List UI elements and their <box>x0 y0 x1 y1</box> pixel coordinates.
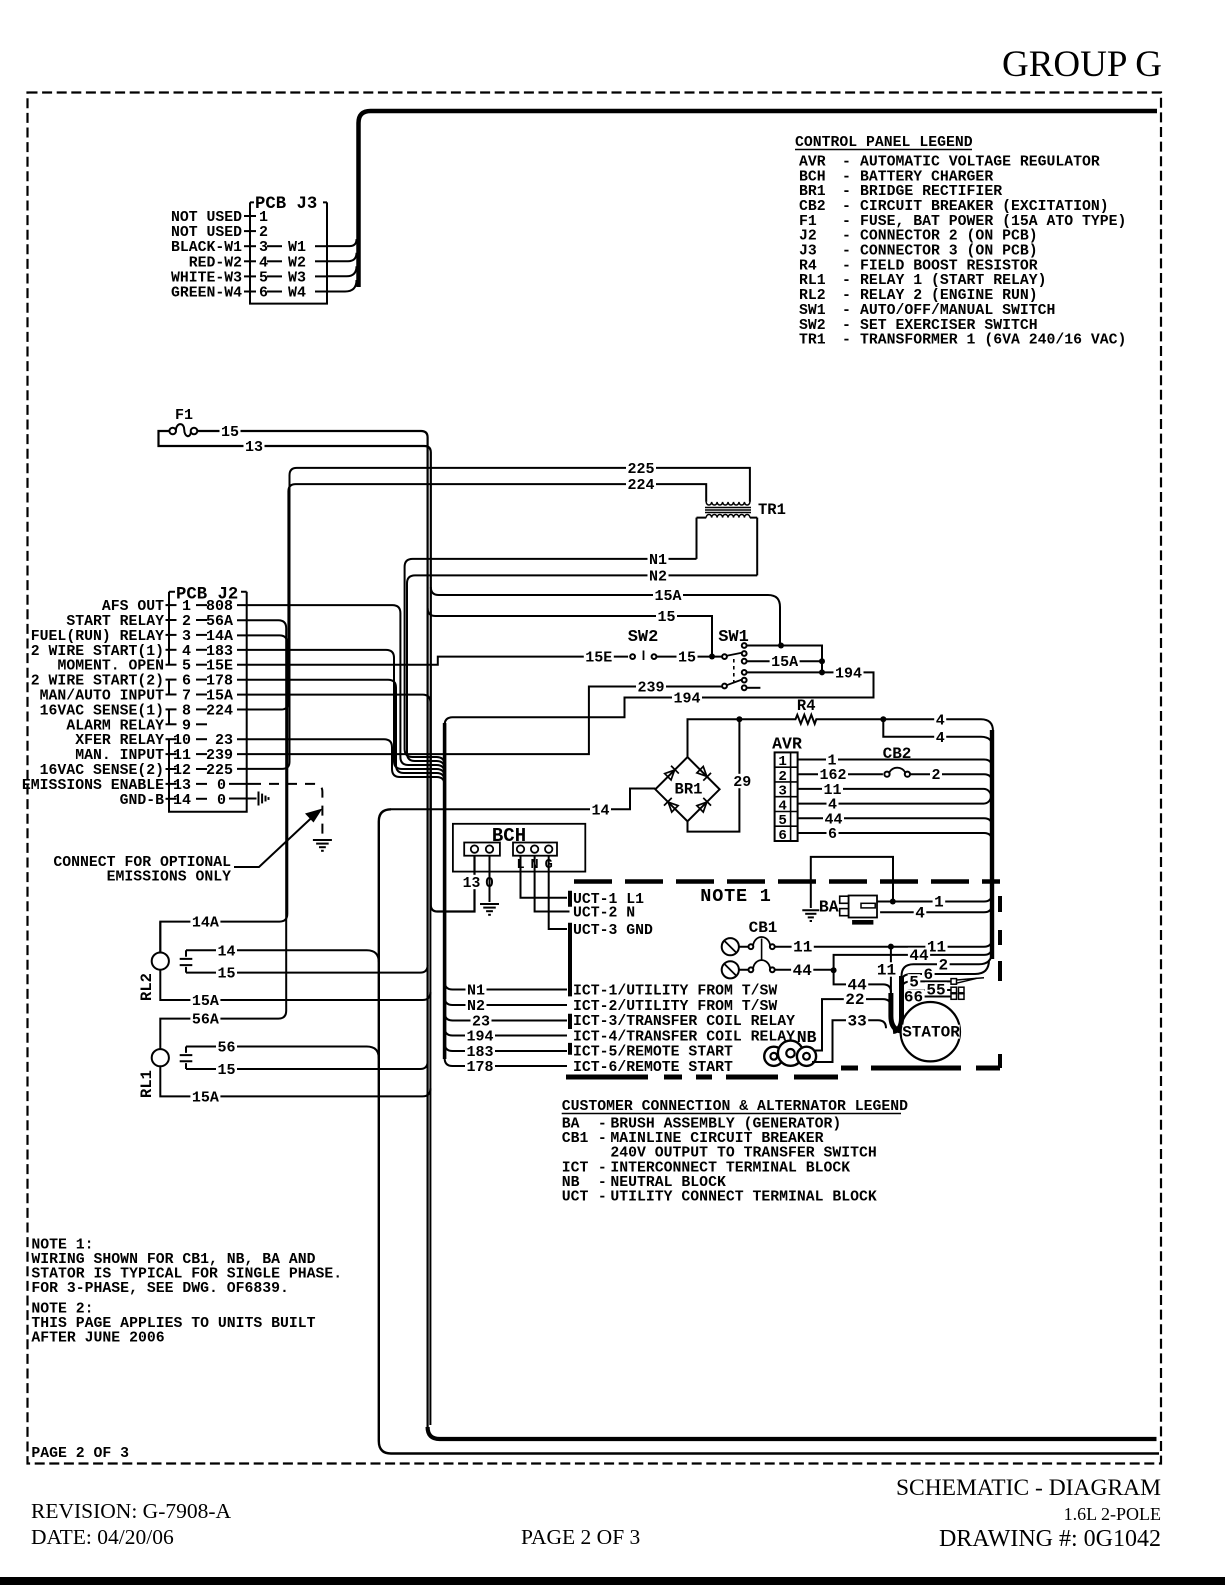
wire N1 net (TR1 secondary to ICT-1) <box>405 559 697 765</box>
junction dot riser b <box>819 669 825 675</box>
wire 44 upper (harness to CB1 node) <box>834 947 992 970</box>
junction dot 44 <box>831 967 837 973</box>
wire N1 to ICT terminal <box>445 982 567 990</box>
svg-text:ICT: ICT <box>562 1160 589 1176</box>
J2 pin 5 (MOMENT. OPEN) <box>57 658 233 675</box>
wire SW1 throw1 to 194 riser <box>747 646 822 673</box>
svg-text:CONNECTOR 2 (ON PCB): CONNECTOR 2 (ON PCB) <box>860 229 1038 245</box>
wire 23 to ICT terminal <box>445 1013 567 1021</box>
label 29 <box>732 774 753 788</box>
label 11 on drop <box>875 962 897 976</box>
svg-text:SW1: SW1 <box>799 303 826 319</box>
label 11 right <box>925 940 947 954</box>
svg-text:-: - <box>842 199 851 215</box>
label 0 at BCH <box>484 875 496 889</box>
svg-text:BRUSH ASSEMBLY (GENERATOR): BRUSH ASSEMBLY (GENERATOR) <box>610 1117 841 1133</box>
svg-text:EMISSIONS ENABLE: EMISSIONS ENABLE <box>22 778 164 794</box>
svg-text:14A: 14A <box>192 915 219 932</box>
wire 15A net RL1 coil bottom <box>160 1066 430 1096</box>
svg-text:PAGE 2 OF 3: PAGE 2 OF 3 <box>521 1525 640 1549</box>
label 55 <box>925 982 947 996</box>
neutral block NB <box>764 1028 816 1066</box>
svg-text:BCH: BCH <box>492 825 526 847</box>
svg-text:F1: F1 <box>799 214 817 230</box>
wire SW1 lower stub <box>747 687 761 689</box>
svg-text:-: - <box>842 288 851 304</box>
label 224 <box>626 477 656 491</box>
svg-text:-: - <box>842 258 851 274</box>
svg-text:GREEN-W4: GREEN-W4 <box>171 286 242 302</box>
svg-text:15A: 15A <box>192 993 219 1010</box>
svg-text:14: 14 <box>173 792 191 809</box>
J3 pin 1 (NOT USED) <box>171 209 268 226</box>
connector on wire 55 <box>951 987 957 993</box>
svg-text:-: - <box>842 154 851 170</box>
wire N to UCT-2 <box>535 856 570 912</box>
svg-text:1: 1 <box>778 754 787 770</box>
wire 14A RL2 coil top <box>159 922 161 953</box>
svg-text:RELAY 1 (START RELAY): RELAY 1 (START RELAY) <box>860 273 1046 289</box>
svg-text:-: - <box>598 1160 607 1176</box>
svg-text:BLACK-W1: BLACK-W1 <box>171 240 242 256</box>
wire 178 to ICT terminal <box>445 1058 567 1066</box>
svg-text:AUTO/OFF/MANUAL SWITCH: AUTO/OFF/MANUAL SWITCH <box>860 303 1055 319</box>
svg-text:WHITE-W3: WHITE-W3 <box>171 270 242 286</box>
junction dot 11 <box>888 944 894 950</box>
svg-text:194: 194 <box>673 691 700 708</box>
leader arrow to emissions ground <box>234 816 314 868</box>
J3 pin 4 (RED-W2) <box>189 254 327 271</box>
stator harness bundle left (11/44/22/33) <box>891 993 901 1031</box>
stator harness bundle right (2/6/5/55/66) <box>893 976 902 1032</box>
svg-text:4: 4 <box>778 798 787 814</box>
wire 239 net (J2-11 to SW1) <box>237 687 722 755</box>
label 15A to SW1 <box>653 588 683 602</box>
svg-text:R4: R4 <box>799 258 817 274</box>
wire G to UCT-3 <box>549 856 567 929</box>
label 2 at CB2 <box>930 767 942 781</box>
label 56A at RL1 <box>190 1011 220 1025</box>
svg-text:EMISSIONS ONLY: EMISSIONS ONLY <box>107 870 231 886</box>
NOTE 1 dashed box bottom edge right <box>841 1066 1000 1071</box>
svg-text:15: 15 <box>217 1062 235 1079</box>
bridge rectifier BR1 <box>655 757 719 821</box>
label 13 on F1 wire <box>244 439 265 453</box>
NOTE 1 dashed box left edge <box>568 891 572 1055</box>
svg-text:16VAC SENSE(1): 16VAC SENSE(1) <box>40 703 164 719</box>
svg-text:N2: N2 <box>649 568 667 585</box>
J2 pin 3 (FUEL(RUN) RELAY) <box>31 628 233 645</box>
svg-text:CB2: CB2 <box>883 745 912 763</box>
svg-text:-: - <box>842 214 851 230</box>
NOTE 1 dashed box top edge <box>574 879 1000 884</box>
svg-text:14: 14 <box>217 943 235 960</box>
svg-text:RED-W2: RED-W2 <box>189 255 242 271</box>
label 44 upper right <box>908 948 930 962</box>
svg-text:224: 224 <box>627 477 654 494</box>
svg-text:R4: R4 <box>797 697 816 715</box>
transformer TR1 <box>697 501 786 519</box>
wire 56A net (J2-2 to RL1 coil) <box>160 620 286 1049</box>
label 15 at RL1 <box>216 1062 237 1076</box>
wire 33 net (NB to stator bundle) <box>812 1020 886 1062</box>
relay RL1 coil <box>152 1049 169 1066</box>
svg-text:178: 178 <box>466 1059 493 1076</box>
svg-text:TRANSFORMER 1 (6VA 240/16 VAC): TRANSFORMER 1 (6VA 240/16 VAC) <box>860 333 1126 349</box>
J2-14 GND-B wire <box>229 798 257 800</box>
svg-text:15: 15 <box>217 966 235 983</box>
wire 224 net (J2-8 to TR1 primary left) <box>237 484 706 709</box>
svg-text:F1: F1 <box>175 407 193 424</box>
J3 pin 6 (GREEN-W4) <box>171 285 327 302</box>
wire 183 net (J2-4 to ICT-5) <box>237 650 445 777</box>
J2 pin 1 (AFS OUT) <box>102 598 233 615</box>
svg-text:ICT-3/TRANSFER COIL RELAY: ICT-3/TRANSFER COIL RELAY <box>573 1014 795 1030</box>
NOTE 1 dashed box right edge <box>998 896 1002 1068</box>
wire 4 from harness to BA <box>880 904 992 912</box>
svg-text:NEUTRAL BLOCK: NEUTRAL BLOCK <box>610 1175 726 1191</box>
svg-text:56: 56 <box>217 1040 235 1057</box>
wire 15 from RL1 contact into bus <box>186 1062 428 1070</box>
BCH 0 terminal ground wire <box>489 856 491 902</box>
circuit breaker CB2 <box>883 745 912 777</box>
J2 pin 10 (XFER RELAY) <box>75 732 233 749</box>
label 6 at stator <box>922 967 935 981</box>
svg-text:GND-B: GND-B <box>120 793 165 809</box>
wire 23 net (J2-10 to ICT-3) <box>237 739 445 785</box>
svg-text:BCH: BCH <box>799 169 826 185</box>
wire 15 net vertical (F1 down left bus) <box>197 431 427 1427</box>
J2 pin 13 (EMISSIONS ENABLE) <box>22 777 226 794</box>
relay RL2 coil <box>152 953 169 970</box>
wire 44 from CB1 <box>775 969 834 971</box>
label 44 lower <box>846 977 868 991</box>
wire SW2 to SW1 common <box>656 656 722 658</box>
svg-text:NB: NB <box>562 1175 580 1191</box>
svg-text:SCHEMATIC - DIAGRAM: SCHEMATIC - DIAGRAM <box>896 1475 1161 1501</box>
label 14 at RL2 <box>216 943 237 957</box>
svg-text:FOR 3-PHASE, SEE DWG. OF6839.: FOR 3-PHASE, SEE DWG. OF6839. <box>31 1281 289 1297</box>
svg-text:14: 14 <box>591 802 609 819</box>
bottom page bar <box>0 1577 1225 1585</box>
svg-text:RL2: RL2 <box>138 973 156 1001</box>
junction dot BA <box>890 899 896 905</box>
wire 6 net (stator to AVR-6) <box>902 960 990 982</box>
svg-text:RELAY 2 (ENGINE RUN): RELAY 2 (ENGINE RUN) <box>860 288 1038 304</box>
wire 15A from bus to SW1 <box>431 587 780 646</box>
svg-text:5: 5 <box>778 813 787 829</box>
label 1 at BA <box>933 894 946 908</box>
wire 29 (BR1 bottom to R4 node) <box>688 719 740 831</box>
label 15 at RL2 <box>216 965 237 979</box>
wire SW1 lower throw to riser <box>747 671 822 673</box>
svg-text:AVR: AVR <box>799 154 826 170</box>
svg-text:2: 2 <box>938 956 948 974</box>
svg-text:XFER RELAY: XFER RELAY <box>75 733 164 749</box>
svg-text:BR1: BR1 <box>675 781 703 799</box>
J2 pin 6 (2 WIRE START(2)) <box>31 673 233 690</box>
junction dot R4 right <box>880 716 886 722</box>
svg-text:TR1: TR1 <box>799 333 826 349</box>
label 11 at CB1 <box>792 940 814 954</box>
J3 pin 5 (WHITE-W3) <box>171 269 327 286</box>
svg-text:15E: 15E <box>585 650 612 667</box>
stator <box>901 1002 960 1061</box>
svg-text:1.6L 2-POLE: 1.6L 2-POLE <box>1064 1504 1161 1524</box>
svg-text:MOMENT. OPEN: MOMENT. OPEN <box>57 659 164 675</box>
ground at emissions wire <box>313 839 332 841</box>
svg-text:-: - <box>598 1190 607 1206</box>
svg-text:33: 33 <box>847 1012 866 1030</box>
ground at J2-14 (GND-B) <box>258 792 260 806</box>
svg-text:W4: W4 <box>288 285 306 302</box>
svg-text:44: 44 <box>909 947 929 965</box>
wire 5 net with connector <box>902 981 952 989</box>
svg-text:6: 6 <box>778 828 787 844</box>
J2 pin 12 (16VAC SENSE(2)) <box>40 762 233 779</box>
svg-text:NOTE 1: NOTE 1 <box>700 886 771 907</box>
wire 56 from RL1 contact to vertical <box>186 1047 379 1059</box>
label N2 <box>648 568 669 582</box>
fuse F1 <box>169 407 197 436</box>
switch SW2 (set exerciser) <box>628 628 659 660</box>
svg-text:RL1: RL1 <box>138 1070 156 1098</box>
wire 15A net (J2-7 into bus) <box>237 695 430 1425</box>
svg-text:6: 6 <box>259 285 268 302</box>
label 4 upper <box>934 712 946 726</box>
wire W1 from J3-3 <box>327 239 357 246</box>
svg-text:4: 4 <box>915 904 925 922</box>
svg-text:224: 224 <box>206 702 233 719</box>
connector on wire 66 <box>951 994 957 1000</box>
label 239 <box>636 679 666 693</box>
wire 2 net (stator to CB2) <box>902 951 993 976</box>
wire 14 to BR1 <box>391 789 655 810</box>
wire 178 net (J2-6 to ICT-6) <box>237 680 445 781</box>
svg-text:2 WIRE START(1): 2 WIRE START(1) <box>31 644 164 660</box>
svg-text:-: - <box>842 184 851 200</box>
wire N2 to ICT terminal <box>445 997 567 1005</box>
svg-text:NOT USED: NOT USED <box>171 210 242 226</box>
svg-text:J2: J2 <box>799 229 817 245</box>
wire 14 from RL2 contact to vertical <box>186 950 379 962</box>
svg-text:DATE: 04/20/06: DATE: 04/20/06 <box>31 1525 174 1549</box>
J2 pin 11 (MAN. INPUT) <box>75 747 233 764</box>
wire 194 net (SW1 to ICT-4) <box>445 672 874 725</box>
wire W4 from J3-6 <box>327 280 357 292</box>
svg-text:CB2: CB2 <box>799 199 826 215</box>
wire 66 net with connector <box>902 997 952 1005</box>
svg-text:-: - <box>842 333 851 349</box>
label 225 <box>626 461 656 475</box>
svg-text:4: 4 <box>936 712 945 729</box>
label 194 upper <box>834 665 864 679</box>
J2 pin 8 (16VAC SENSE(1)) <box>40 702 233 719</box>
label 44 at CB1 <box>791 963 813 977</box>
wire 13 net (F1 to BCH-13) <box>159 431 475 912</box>
svg-text:TR1: TR1 <box>758 501 786 519</box>
label 15 top <box>656 609 677 623</box>
svg-text:6: 6 <box>828 826 837 843</box>
svg-text:3: 3 <box>778 784 787 800</box>
svg-text:-: - <box>598 1131 607 1147</box>
J3 pin 3 (BLACK-W1) <box>171 239 327 256</box>
svg-text:ICT-2/UTILITY FROM T/SW: ICT-2/UTILITY FROM T/SW <box>573 999 777 1015</box>
wire 11 drop to stator bundle <box>890 947 892 995</box>
svg-text:225: 225 <box>627 461 654 478</box>
wire 1 from harness to BA <box>877 894 992 902</box>
label 15A at RL2 <box>190 993 220 1007</box>
svg-text:FUEL(RUN) RELAY: FUEL(RUN) RELAY <box>31 629 164 645</box>
battery charger BCH <box>453 824 585 873</box>
svg-text:MAN/AUTO INPUT: MAN/AUTO INPUT <box>40 689 164 705</box>
AVR pin 3 and 4 wires (U-turn at harness) <box>798 789 991 804</box>
svg-text:-: - <box>842 229 851 245</box>
svg-text:11: 11 <box>877 962 896 980</box>
label 15A at SW1 <box>770 654 800 668</box>
wire L to UCT-1 <box>521 856 568 898</box>
J2 pin 7 (MAN/AUTO INPUT) <box>40 688 233 705</box>
svg-text:REVISION: G-7908-A: REVISION: G-7908-A <box>31 1499 232 1523</box>
wire 15E from J2-5 to SW2 <box>237 657 628 665</box>
label 5 <box>908 974 921 988</box>
svg-text:BRIDGE RECTIFIER: BRIDGE RECTIFIER <box>860 184 1002 200</box>
junction dot at SW junction <box>709 654 715 660</box>
svg-text:-: - <box>842 273 851 289</box>
label 13 at BCH <box>461 875 482 889</box>
AVR pin 1 wire <box>798 760 992 768</box>
svg-text:29: 29 <box>733 774 751 791</box>
NOTE 1 dashed box bottom edge left <box>566 1075 838 1080</box>
label 194 lower <box>672 690 702 704</box>
svg-text:194: 194 <box>835 665 862 682</box>
svg-text:16VAC SENSE(2): 16VAC SENSE(2) <box>40 763 164 779</box>
wire 15A net RL2 coil bottom <box>160 970 430 1000</box>
label 4 at BA <box>914 905 927 919</box>
svg-text:CIRCUIT BREAKER (EXCITATION): CIRCUIT BREAKER (EXCITATION) <box>860 199 1109 215</box>
harness bar right <box>990 730 994 959</box>
resistor R4 <box>739 697 993 731</box>
emissions enable dashed wire from J2-13 <box>229 783 251 785</box>
wire 194 to ICT terminal <box>445 1028 567 1036</box>
wire SW1 throw3 (15A) <box>747 660 822 662</box>
RL1 contact <box>180 1047 193 1070</box>
label 33 <box>846 1013 868 1027</box>
AVR pin 2 wire with breaker CB2 <box>798 773 883 775</box>
svg-text:56A: 56A <box>192 1012 219 1029</box>
svg-text:INTERCONNECT TERMINAL BLOCK: INTERCONNECT TERMINAL BLOCK <box>610 1160 850 1176</box>
J2 pin 4 (2 WIRE START(1)) <box>31 643 233 660</box>
connector J2 (PCB J2) <box>169 586 247 812</box>
wire bottom bus thick <box>428 1427 1157 1439</box>
label 4 lower <box>934 730 946 744</box>
svg-text:15: 15 <box>657 609 675 626</box>
circuit breaker CB1 <box>722 919 778 978</box>
svg-text:CONNECTOR 3 (ON PCB): CONNECTOR 3 (ON PCB) <box>860 244 1038 260</box>
svg-text:N2: N2 <box>467 998 485 1015</box>
svg-text:BA: BA <box>562 1117 580 1133</box>
svg-text:UCT-2 N: UCT-2 N <box>573 906 635 922</box>
wire 15 from bus to SW junction <box>428 608 712 657</box>
svg-text:-: - <box>598 1117 607 1133</box>
wire W2 from J3-4 <box>327 253 357 262</box>
svg-text:ICT-1/UTILITY FROM T/SW: ICT-1/UTILITY FROM T/SW <box>573 984 777 1000</box>
svg-text:-: - <box>598 1175 607 1191</box>
svg-text:SW2: SW2 <box>799 318 826 334</box>
svg-text:ICT-4/TRANSFER COIL RELAY: ICT-4/TRANSFER COIL RELAY <box>573 1029 795 1045</box>
svg-text:AVR: AVR <box>772 735 802 754</box>
junction dot riser a <box>819 658 825 664</box>
label N1 <box>648 552 669 566</box>
J2 pin 9 (ALARM RELAY) <box>66 717 207 734</box>
voltage regulator AVR <box>772 735 802 844</box>
svg-text:STATOR: STATOR <box>902 1024 960 1042</box>
wire top bus (W1-W4 harness to page 3) <box>359 111 1158 287</box>
svg-text:MAINLINE CIRCUIT BREAKER: MAINLINE CIRCUIT BREAKER <box>610 1131 823 1147</box>
svg-text:239: 239 <box>637 680 664 697</box>
svg-text:13: 13 <box>245 439 263 456</box>
svg-text:ICT-6/REMOTE START: ICT-6/REMOTE START <box>573 1060 733 1076</box>
wire 15 from RL2 contact into bus <box>186 965 428 973</box>
svg-text:11: 11 <box>793 939 812 957</box>
svg-text:AFTER JUNE 2006: AFTER JUNE 2006 <box>31 1331 164 1347</box>
wire 14A net (J2-3 to RL2 coil) <box>160 635 287 952</box>
svg-text:15A: 15A <box>192 1089 219 1106</box>
svg-text:START RELAY: START RELAY <box>66 614 164 630</box>
label 14A at RL2 <box>190 914 220 928</box>
svg-text:UCT: UCT <box>562 1190 589 1206</box>
svg-text:-: - <box>842 318 851 334</box>
connector on wire 5 <box>951 979 957 985</box>
label 15A at RL1 <box>190 1089 220 1103</box>
TR1 secondary right lead <box>756 518 758 576</box>
wire 2 from CB2 to harness <box>910 774 992 782</box>
wire 44 lower (to stator bundle) <box>834 970 891 992</box>
svg-text:FUSE, BAT POWER (15A ATO TYPE): FUSE, BAT POWER (15A ATO TYPE) <box>860 214 1126 230</box>
wire 4 lower (R4 node to harness) <box>883 719 993 749</box>
svg-text:15A: 15A <box>771 654 798 671</box>
svg-text:SET EXERCISER SWITCH: SET EXERCISER SWITCH <box>860 318 1038 334</box>
wire BR1 top to R4 node <box>688 719 740 757</box>
J2 pin 14 (GND-B) <box>120 792 226 809</box>
svg-text:UCT-3 GND: UCT-3 GND <box>573 923 653 939</box>
junction dot R4 left <box>736 716 742 722</box>
svg-text:N1: N1 <box>467 983 485 1000</box>
wire N2 net (TR1 secondary to ICT-2) <box>407 575 757 769</box>
svg-text:2: 2 <box>931 767 940 784</box>
brush assembly BA <box>819 896 877 925</box>
svg-text:CB1: CB1 <box>749 919 778 937</box>
J3 pin 2 (NOT USED) <box>171 224 268 241</box>
wire 808 net (J2-1) <box>237 605 445 773</box>
wire 22 net (NB to stator bundle) <box>815 999 891 1050</box>
svg-text:13: 13 <box>463 876 481 892</box>
wire 11 net (CB1 to harness) <box>775 939 992 947</box>
AVR pin 6 wire <box>798 833 992 841</box>
svg-text:ICT-5/REMOTE START: ICT-5/REMOTE START <box>573 1045 733 1061</box>
ground at BCH <box>480 903 499 905</box>
svg-text:NOT USED: NOT USED <box>171 225 242 241</box>
svg-text:CONTROL PANEL LEGEND: CONTROL PANEL LEGEND <box>795 135 973 151</box>
svg-text:SW2: SW2 <box>628 628 659 647</box>
svg-text:BA: BA <box>819 898 839 917</box>
svg-text:-: - <box>842 244 851 260</box>
svg-text:RL1: RL1 <box>799 273 826 289</box>
label 15 on F1 wire <box>220 424 241 438</box>
svg-text:15: 15 <box>221 424 239 441</box>
connector J3 (PCB J3) <box>250 195 327 304</box>
svg-text:AUTOMATIC VOLTAGE REGULATOR: AUTOMATIC VOLTAGE REGULATOR <box>860 154 1100 170</box>
